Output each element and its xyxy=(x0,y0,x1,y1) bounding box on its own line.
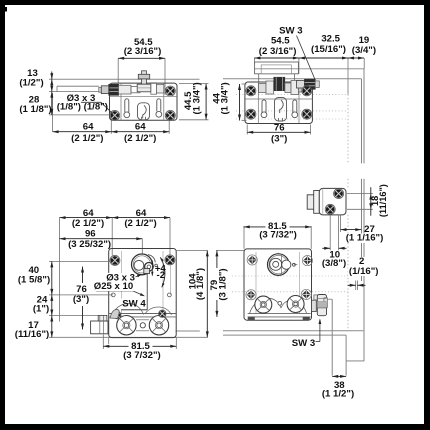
svg-text:(3 1/8"): (3 1/8") xyxy=(218,268,229,300)
svg-text:54.5: 54.5 xyxy=(271,36,290,47)
svg-text:(1 3/4"): (1 3/4") xyxy=(192,82,203,114)
svg-text:(1 5/8"): (1 5/8") xyxy=(18,275,50,286)
svg-text:(1/8") (1/8"): (1/8") (1/8") xyxy=(57,102,108,113)
svg-text:Ø25 x 10: Ø25 x 10 xyxy=(94,281,133,292)
svg-text:(11/16"): (11/16") xyxy=(378,184,388,217)
svg-text:(2 1/2"): (2 1/2") xyxy=(124,133,156,144)
svg-text:(3 7/32"): (3 7/32") xyxy=(123,350,161,361)
svg-text:SW 4: SW 4 xyxy=(122,299,146,310)
svg-text:(2 1/2"): (2 1/2") xyxy=(72,218,104,229)
svg-text:96: 96 xyxy=(85,229,96,240)
svg-text:(1/2"): (1/2") xyxy=(19,78,43,89)
svg-text:(2 1/2"): (2 1/2") xyxy=(71,133,103,144)
svg-text:(3 25/32"): (3 25/32") xyxy=(68,239,111,250)
svg-text:76: 76 xyxy=(274,123,285,134)
svg-text:(1 1/2"): (1 1/2") xyxy=(322,389,354,400)
svg-text:64: 64 xyxy=(135,122,146,133)
svg-text:(4 1/8"): (4 1/8") xyxy=(195,268,206,300)
svg-text:(1 1/8"): (1 1/8") xyxy=(19,104,51,115)
svg-text:-2: -2 xyxy=(157,270,166,281)
svg-text:(1"): (1") xyxy=(33,304,49,315)
svg-text:(3"): (3") xyxy=(271,134,287,145)
svg-text:(3"): (3") xyxy=(73,294,89,305)
svg-text:(1/16"): (1/16") xyxy=(349,266,379,277)
svg-text:(2 3/16"): (2 3/16") xyxy=(259,46,297,57)
svg-text:(3/8"): (3/8") xyxy=(322,258,346,269)
svg-text:(3 7/32"): (3 7/32") xyxy=(259,230,297,241)
svg-text:(2 3/16"): (2 3/16") xyxy=(124,46,162,57)
svg-text:(2 1/2"): (2 1/2") xyxy=(124,218,156,229)
svg-text:(1 1/16"): (1 1/16") xyxy=(346,233,384,244)
svg-text:(3/4"): (3/4") xyxy=(352,45,376,56)
svg-text:SW 3: SW 3 xyxy=(292,338,315,349)
svg-text:64: 64 xyxy=(83,122,94,133)
svg-text:(11/16"): (11/16") xyxy=(15,329,49,340)
svg-text:(15/16"): (15/16") xyxy=(311,44,346,55)
svg-text:(1 3/4"): (1 3/4") xyxy=(219,82,230,114)
